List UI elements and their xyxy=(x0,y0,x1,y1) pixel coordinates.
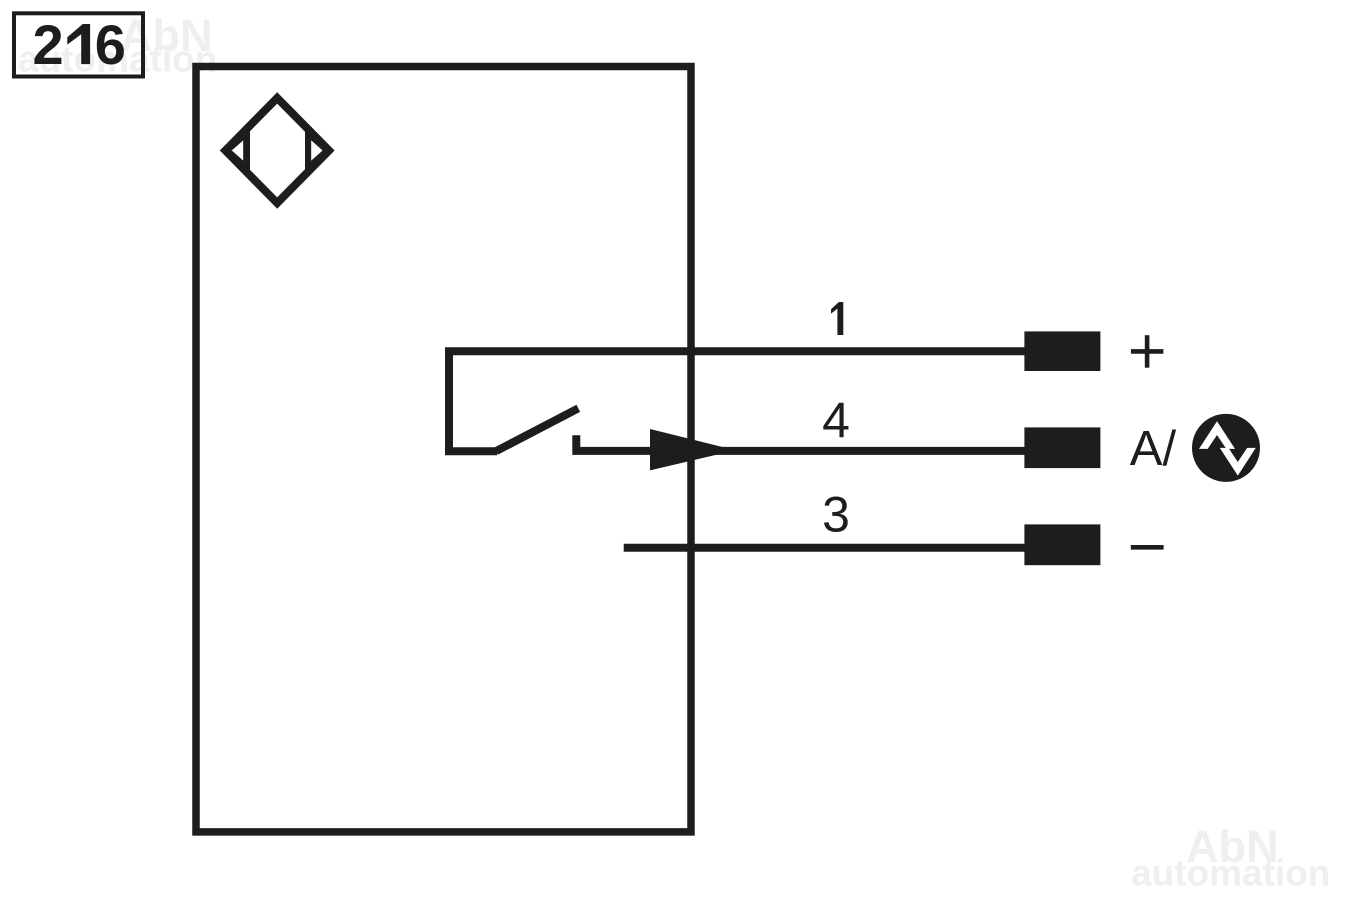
svg-text:A/: A/ xyxy=(1130,422,1177,476)
svg-text:6: 6 xyxy=(95,13,126,76)
svg-text:3: 3 xyxy=(822,487,850,543)
svg-text:4: 4 xyxy=(822,392,850,448)
svg-text:2: 2 xyxy=(33,13,64,76)
svg-text:automation: automation xyxy=(1131,853,1330,894)
